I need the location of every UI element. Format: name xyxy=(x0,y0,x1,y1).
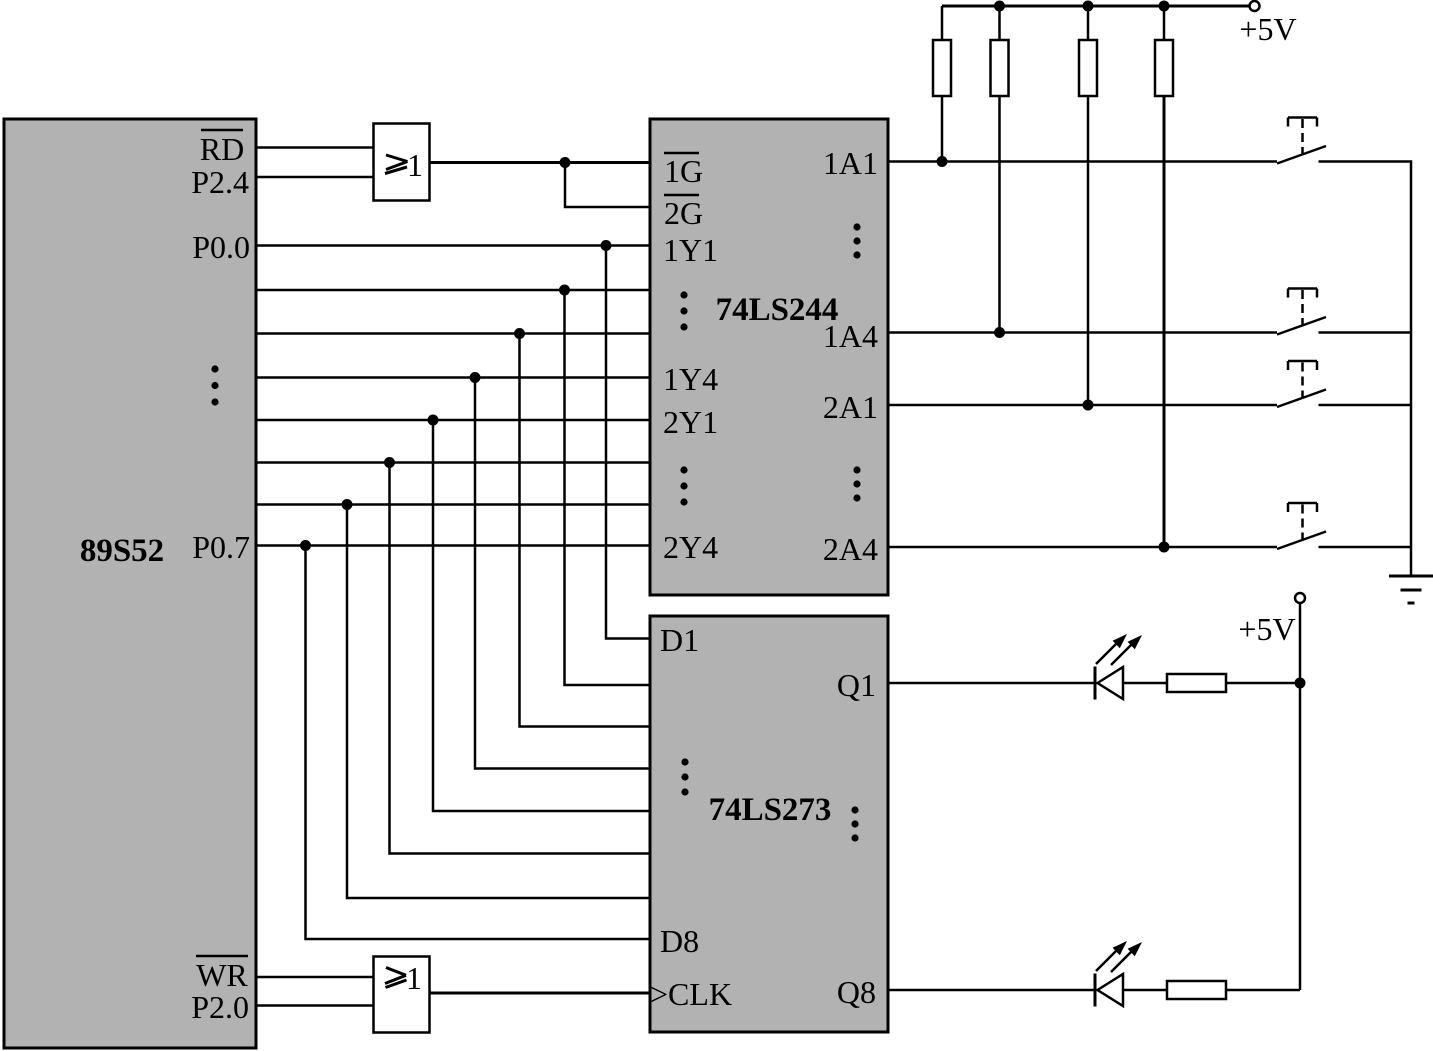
svg-text:P2.0: P2.0 xyxy=(191,989,249,1025)
resistor R4 pull-up xyxy=(1155,6,1173,547)
wire P0.2 to U2 xyxy=(256,332,650,335)
U1 pin label P2.0 xyxy=(191,989,249,1025)
svg-text:74LS244: 74LS244 xyxy=(716,292,839,328)
wire P0.4 to U2 2Y1 xyxy=(256,419,650,422)
svg-text:2A4: 2A4 xyxy=(823,531,878,567)
node P0.0 branch xyxy=(601,240,612,251)
G2 label >=1 xyxy=(385,960,422,996)
wire U3 Q1 to LED1 xyxy=(888,682,1095,685)
node bus R4 xyxy=(1159,1,1170,12)
U3 pin label D8 xyxy=(660,923,699,959)
U2 right ellipsis dots upper xyxy=(853,223,860,258)
OR gate G2 body xyxy=(374,957,430,1033)
node R1 to 1A1 row xyxy=(937,156,948,167)
svg-text:1Y1: 1Y1 xyxy=(663,232,718,268)
wire S2 to ground rail xyxy=(1319,331,1413,334)
switch S4 xyxy=(1277,503,1326,549)
wire P0.5 down to U3 D6 xyxy=(390,463,651,854)
node R4 to 2A4 row xyxy=(1159,542,1170,553)
wire P0.2 down to U3 D3 xyxy=(520,334,651,727)
U1 pin label RD (active low) xyxy=(200,130,244,167)
node P0.6 branch xyxy=(342,499,353,510)
U3 pin label Q1 xyxy=(837,667,876,703)
wire P2.4 to G1 input xyxy=(256,176,373,179)
wire P0.6 to U2 xyxy=(256,503,650,506)
node bus R3 xyxy=(1083,1,1094,12)
svg-text:2Y4: 2Y4 xyxy=(663,529,718,565)
resistor R2 pull-up xyxy=(991,6,1009,333)
U2 pin label 1A4 xyxy=(823,318,878,354)
U2 pin label 1A1 xyxy=(823,145,878,181)
power rail +5V bus top xyxy=(942,5,1249,8)
svg-text:1G: 1G xyxy=(664,153,703,189)
svg-text:D8: D8 xyxy=(660,923,699,959)
wire U2 1A1 row xyxy=(888,160,1277,163)
wire P0.1 down to U3 D2 xyxy=(565,290,651,685)
svg-text:P0.7: P0.7 xyxy=(192,529,250,565)
wire S4 to ground rail xyxy=(1319,546,1413,549)
wire LED1 to R5 xyxy=(1123,682,1167,685)
buffer U2 74LS244 body xyxy=(650,119,888,595)
wire R6 to +5V rail xyxy=(1226,989,1300,992)
U1 pin label P0.7 xyxy=(192,529,250,565)
wire P0.7 down to U3 D8 xyxy=(306,546,651,940)
wire U2 1A4 row xyxy=(888,331,1277,334)
wire P2.0 to G2 input xyxy=(256,1004,373,1007)
U1 pin label WR (active low) xyxy=(196,956,248,993)
wire G2 output to U3 CLK xyxy=(430,992,650,995)
LED D8 xyxy=(1095,941,1142,1007)
wire S3 to ground rail xyxy=(1319,404,1413,407)
svg-text:+5V: +5V xyxy=(1239,11,1296,47)
terminal +5V LED rail xyxy=(1295,593,1305,603)
svg-text:RD: RD xyxy=(200,131,244,167)
U3 right ellipsis dots xyxy=(851,806,858,841)
U2 pin label 1Y1 xyxy=(663,232,718,268)
svg-text:1A1: 1A1 xyxy=(823,145,878,181)
svg-text:Q1: Q1 xyxy=(837,667,876,703)
resistor R5 xyxy=(1167,674,1226,692)
wire P0.3 down to U3 D4 xyxy=(475,378,650,769)
U2 pin label 2Y4 xyxy=(663,529,718,565)
MCU U1 89S52 body xyxy=(4,119,256,1048)
U1 label 89S52 xyxy=(80,533,164,569)
svg-text:1: 1 xyxy=(407,147,423,183)
svg-text:74LS273: 74LS273 xyxy=(709,792,832,828)
switch S3 xyxy=(1277,361,1326,407)
resistor R1 pull-up xyxy=(933,6,951,162)
node bus R2 xyxy=(994,1,1005,12)
U2 pin label 2A4 xyxy=(823,531,878,567)
wire R5 to +5V rail xyxy=(1226,682,1300,685)
wire +5V LED rail vertical xyxy=(1299,603,1302,990)
wire G1 output to U2 1G xyxy=(430,161,650,164)
node P0.4 branch xyxy=(428,415,439,426)
svg-text:WR: WR xyxy=(196,957,248,993)
wire S1 to ground rail xyxy=(1319,162,1412,577)
wire P0.3 to U2 1Y4 xyxy=(256,376,650,379)
wire LED8 to R6 xyxy=(1123,989,1167,992)
U2 left ellipsis dots upper xyxy=(680,291,687,330)
U2 pin label 1Y4 xyxy=(663,361,718,397)
latch U3 74LS273 body xyxy=(650,616,888,1032)
G1 label >=1 xyxy=(385,147,423,183)
node R3 to 2A1 row xyxy=(1083,400,1094,411)
U2 right ellipsis dots lower xyxy=(853,466,860,501)
U2 pin label 2G (active low) xyxy=(664,195,703,231)
svg-text:P2.4: P2.4 xyxy=(191,164,249,200)
U2 pin label 2Y1 xyxy=(663,404,718,440)
label +5V top xyxy=(1239,11,1296,47)
wire P0.0 to U2 1Y1 xyxy=(256,244,650,247)
svg-text:P0.0: P0.0 xyxy=(192,229,250,265)
node P0.7 branch xyxy=(300,540,311,551)
svg-text:2Y1: 2Y1 xyxy=(663,404,718,440)
svg-text:>CLK: >CLK xyxy=(650,976,732,1012)
U2 left ellipsis dots lower xyxy=(680,466,687,505)
U1 port ellipsis dots xyxy=(211,365,218,405)
svg-text:D1: D1 xyxy=(660,622,699,658)
U1 pin label P0.0 xyxy=(192,229,250,265)
wire branch to U2 2G xyxy=(565,163,650,208)
svg-text:2A1: 2A1 xyxy=(823,389,878,425)
U2 pin label 1G (active low) xyxy=(664,153,703,189)
node P0.1 branch xyxy=(559,285,570,296)
wire U2 2A1 row xyxy=(888,404,1277,407)
OR gate G1 body xyxy=(374,124,430,201)
svg-text:89S52: 89S52 xyxy=(80,533,164,569)
node P0.2 branch xyxy=(514,328,525,339)
svg-text:Q8: Q8 xyxy=(837,974,876,1010)
wire P0.5 to U2 xyxy=(256,461,650,464)
wire P0.6 down to U3 D7 xyxy=(347,505,650,899)
svg-text:1: 1 xyxy=(406,960,422,996)
switch S1 xyxy=(1277,118,1326,164)
U2 pin label 2A1 xyxy=(823,389,878,425)
svg-text:1Y4: 1Y4 xyxy=(663,361,718,397)
wire P0.0 down to U3 D1 xyxy=(606,246,650,639)
U3 pin label CLK with edge mark xyxy=(650,976,732,1012)
resistor R3 pull-up xyxy=(1079,6,1097,405)
U2 label 74LS244 xyxy=(716,292,839,328)
resistor R6 xyxy=(1167,981,1226,999)
node on G1 output xyxy=(560,157,571,168)
svg-text:2G: 2G xyxy=(664,195,703,231)
svg-text:1A4: 1A4 xyxy=(823,318,878,354)
node LED rail Q1 row xyxy=(1295,678,1306,689)
label +5V LED rail xyxy=(1238,611,1295,647)
wire WR to G2 input xyxy=(256,976,373,979)
U3 label 74LS273 xyxy=(709,792,832,828)
wire U2 2A4 row xyxy=(888,546,1277,549)
svg-text:+5V: +5V xyxy=(1238,611,1295,647)
wire U3 Q8 to LED8 xyxy=(888,989,1095,992)
U3 pin label D1 xyxy=(660,622,699,658)
wire RD to G1 input xyxy=(256,146,373,149)
LED D1 xyxy=(1095,634,1142,700)
node P0.5 branch xyxy=(384,457,395,468)
switch S2 xyxy=(1277,289,1326,335)
U3 pin label Q8 xyxy=(837,974,876,1010)
node R2 to 1A4 row xyxy=(994,327,1005,338)
wire P0.7 to U2 2Y4 xyxy=(256,544,650,547)
node P0.3 branch xyxy=(470,372,481,383)
wire P0.1 to U2 xyxy=(256,289,650,292)
wire P0.4 down to U3 D5 xyxy=(433,420,650,811)
ground xyxy=(1389,576,1433,603)
U1 pin label P2.4 xyxy=(191,164,249,200)
terminal +5V top xyxy=(1250,1,1260,11)
U3 left ellipsis dots xyxy=(681,758,688,795)
